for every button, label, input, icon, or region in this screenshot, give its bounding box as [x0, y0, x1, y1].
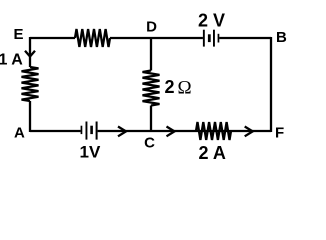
svg-text:E: E	[13, 26, 23, 43]
svg-text:D: D	[146, 19, 157, 36]
svg-text:Ω: Ω	[178, 78, 192, 99]
svg-text:2 V: 2 V	[198, 11, 225, 31]
svg-text:F: F	[275, 125, 284, 142]
svg-text:2: 2	[165, 77, 175, 97]
svg-text:1 A: 1 A	[0, 52, 23, 69]
svg-text:C: C	[144, 134, 155, 151]
svg-text:2 A: 2 A	[199, 143, 226, 163]
svg-text:B: B	[276, 29, 287, 46]
svg-text:A: A	[14, 125, 25, 142]
svg-text:1V: 1V	[80, 143, 101, 162]
